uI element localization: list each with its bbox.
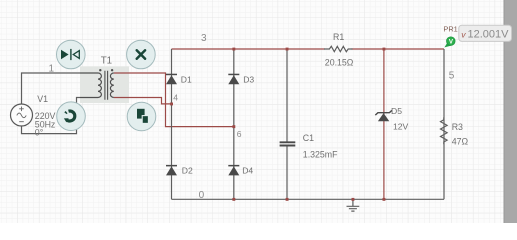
button delete	[127, 40, 156, 69]
wire C1 branch top	[286, 49, 288, 142]
svg-text:PR1: PR1	[443, 24, 457, 33]
label D2	[182, 165, 193, 175]
node 3	[201, 33, 207, 44]
label C1	[303, 133, 314, 143]
junction node 4	[170, 103, 173, 106]
label T1	[101, 56, 112, 67]
junction node top D3	[232, 48, 235, 51]
diode D1	[166, 74, 177, 85]
svg-text:C1: C1	[303, 133, 314, 143]
diode D4	[228, 165, 239, 176]
resistor R3	[441, 117, 448, 144]
svg-text:T1: T1	[101, 56, 112, 67]
svg-text:1.325mF: 1.325mF	[303, 149, 338, 159]
wire T1 secondary bottom to node 4	[129, 98, 172, 104]
wire bottom rail net 0	[172, 198, 445, 200]
junction bottom D3D4	[232, 198, 235, 201]
button copy	[127, 102, 156, 131]
svg-text:R3: R3	[452, 122, 463, 132]
label D4	[242, 165, 253, 175]
svg-text:12.001V: 12.001V	[468, 29, 510, 41]
wire D1 D2 branch	[171, 49, 173, 199]
value 12V	[393, 121, 409, 131]
transformer T1	[80, 69, 129, 100]
wire net1 V1 top to T1 primary	[22, 73, 81, 104]
svg-text:4: 4	[173, 92, 178, 102]
label D5	[391, 106, 402, 116]
svg-text:5: 5	[449, 70, 455, 81]
value 50Hz	[35, 119, 56, 129]
diode D3	[228, 74, 239, 85]
wire T1 secondary top to node 6	[129, 73, 234, 127]
svg-text:v: v	[461, 29, 466, 39]
transformer T1 selection box	[80, 66, 129, 103]
button flip	[57, 40, 86, 69]
value 20.15 ohm	[325, 57, 354, 67]
label V1	[37, 94, 48, 104]
AC source V1	[11, 104, 33, 126]
svg-text:D2: D2	[182, 165, 193, 175]
label D3	[243, 75, 254, 85]
button rotate	[57, 102, 86, 131]
junction node top D5	[383, 48, 386, 51]
junction bottom ground	[352, 198, 355, 201]
value 1.325mF	[303, 149, 338, 159]
svg-text:D4: D4	[242, 165, 253, 175]
wire top rail net 3	[172, 48, 326, 50]
value 220V	[35, 111, 56, 121]
junction bottom D5	[383, 198, 386, 201]
capacitor C1	[280, 142, 296, 145]
wire C1 branch bottom	[286, 146, 288, 199]
svg-text:6: 6	[237, 129, 242, 139]
junction node 6	[232, 125, 235, 128]
svg-text:12V: 12V	[393, 121, 409, 131]
wire top rail net 5	[352, 48, 445, 50]
value 0deg	[35, 127, 43, 137]
wire R3 branch	[443, 49, 445, 199]
probe PR1	[444, 37, 455, 48]
wire D5 branch	[383, 49, 385, 199]
svg-text:0°: 0°	[35, 127, 43, 137]
scrollbar strip	[504, 0, 517, 223]
label PR1	[443, 24, 457, 33]
svg-text:20.15Ω: 20.15Ω	[325, 57, 354, 67]
label D1	[181, 75, 192, 85]
node 1	[49, 63, 55, 74]
svg-text:1: 1	[49, 63, 55, 74]
node 4 label	[173, 92, 178, 102]
resistor R1	[324, 46, 353, 51]
node 0	[199, 190, 205, 201]
ground	[347, 199, 360, 211]
node 5 label	[449, 70, 455, 81]
svg-text:47Ω: 47Ω	[452, 136, 469, 146]
value 47 ohm	[452, 136, 469, 146]
diode D2	[166, 165, 177, 176]
node 6 label	[237, 129, 242, 139]
junction node top C1	[286, 48, 289, 51]
probe tooltip	[459, 25, 512, 41]
svg-text:D1: D1	[181, 75, 192, 85]
svg-text:R1: R1	[333, 32, 344, 42]
wire V1 bottom to T1 primary bottom	[22, 98, 81, 134]
zener diode D5	[375, 110, 392, 121]
wire D3 D4 branch	[233, 49, 235, 199]
svg-text:0: 0	[199, 190, 205, 201]
label R1	[333, 32, 344, 42]
svg-text:D5: D5	[391, 106, 402, 116]
junction bottom C1	[286, 198, 289, 201]
label R3	[452, 122, 463, 132]
svg-text:D3: D3	[243, 75, 254, 85]
svg-text:V1: V1	[37, 94, 48, 104]
svg-text:3: 3	[201, 33, 207, 44]
